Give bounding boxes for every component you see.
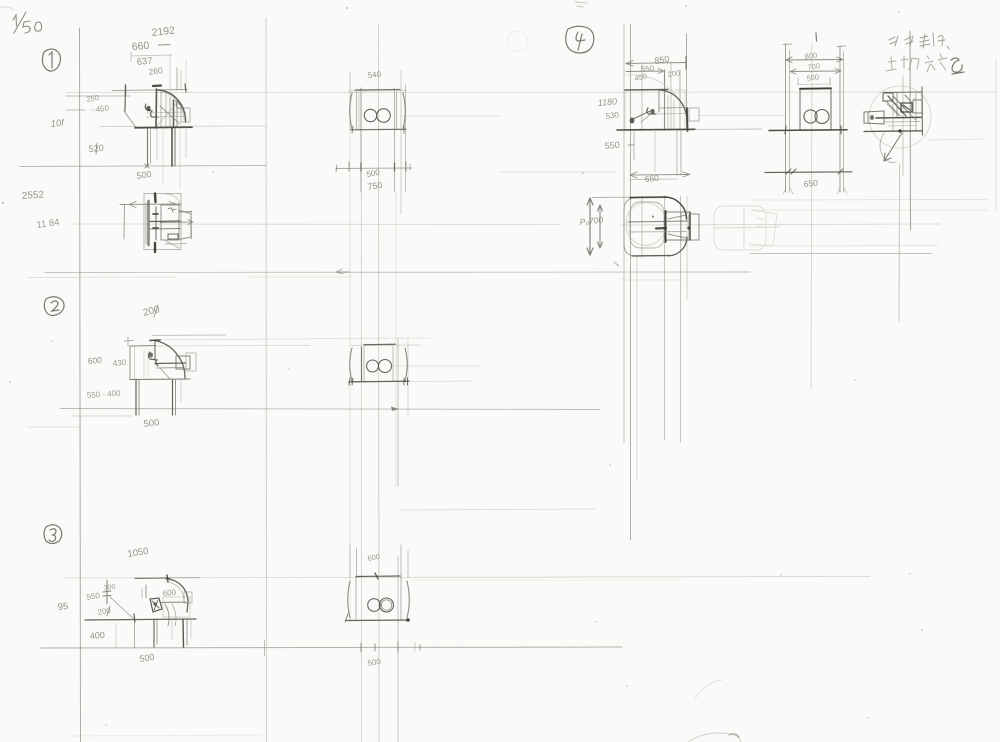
vertical guide x=350 long faint	[349, 130, 351, 622]
T1 main vertical	[155, 89, 158, 128]
T2 small box right	[176, 356, 190, 369]
T1 seat dark blob	[146, 106, 150, 112]
T1 left vertical	[124, 90, 127, 111]
B1 tap circle left	[364, 109, 376, 121]
T1 dim tick left	[125, 85, 127, 95]
T3 inner arc echo	[166, 582, 184, 601]
S4A floor faint extension	[695, 128, 762, 131]
T2 quarter arc	[155, 341, 185, 379]
horizontal y=580 faint right of basin3	[410, 579, 680, 581]
circled number 1	[42, 49, 60, 71]
T3 diagonal guide to floor	[110, 597, 135, 620]
strike in 520	[96, 143, 97, 154]
S4A left vertical of arc	[658, 90, 660, 112]
svg-text:95: 95	[57, 601, 68, 613]
S4B tank dark left edge	[665, 211, 667, 242]
faint arc bottom centre	[694, 680, 722, 700]
T5 long arrow diagonal	[884, 133, 902, 161]
horizontal y=346 toilet2 top guide	[128, 345, 310, 348]
smudge top left edge	[0, 7, 14, 10]
B2 inner vertical right	[392, 347, 394, 381]
S4B top guide line	[592, 196, 656, 199]
T5 bottom dark line	[864, 130, 922, 133]
svg-text:500: 500	[806, 72, 820, 83]
basin B2 section2	[349, 344, 472, 385]
B1 inner verticals left pair	[356, 92, 358, 129]
svg-text:540: 540	[367, 70, 382, 80]
vertical guide x=394.5 upper	[394, 88, 396, 192]
short dark stroke above basin4	[815, 33, 818, 41]
T1 diagonal to floor	[124, 111, 136, 128]
B3 left arc	[348, 581, 350, 618]
toilet T2 section2	[124, 335, 310, 415]
basin B3 section3	[345, 573, 420, 652]
svg-text:800: 800	[804, 51, 817, 61]
B4 dark top edge	[800, 87, 831, 90]
T1b seat horizontals	[150, 220, 180, 223]
T1 arc inner echo	[160, 92, 184, 120]
T3 tick on diagonal	[134, 614, 135, 622]
S4A dark right vertical	[686, 108, 689, 131]
B2 inner vertical pair left	[361, 347, 363, 381]
arrow tick on y=272 line	[336, 269, 349, 274]
B4 lower dim arrow ticks	[786, 169, 796, 174]
T2 legs below	[135, 380, 137, 415]
basin4 rail verticals	[785, 44, 787, 192]
strike in 200 sec3	[107, 606, 110, 616]
svg-text:430: 430	[112, 358, 127, 368]
T3 left small verticals	[145, 585, 147, 598]
T5 top bar	[884, 91, 922, 94]
smudge top edge near x=580	[575, 2, 587, 7]
T1 right box	[181, 108, 190, 122]
B1 top line	[355, 89, 400, 92]
vertical guides above toilet1	[169, 55, 171, 90]
T1 diagonal strokes	[160, 106, 180, 124]
svg-text:10f: 10f	[50, 118, 66, 130]
S4A big faint quarter arc	[627, 75, 688, 128]
B2 bottom end ticks	[349, 378, 408, 385]
S4B mid horizontal dark	[628, 221, 688, 222]
T2 top dark tick	[150, 339, 160, 342]
vertical x=642 mid	[641, 196, 643, 258]
vertical guide x=350 upper	[349, 72, 351, 130]
vertical x=637	[636, 255, 638, 480]
T5 left upper box	[883, 93, 893, 101]
horizontal y=253.5 right	[750, 253, 932, 255]
vertical guide x=398 lower	[397, 556, 399, 742]
B2 bottom faint extension	[409, 380, 472, 383]
T3 top tick	[167, 575, 168, 582]
S4B dark top edge	[630, 196, 666, 199]
T2 left dim ticks	[127, 337, 129, 346]
svg-text:530: 530	[605, 110, 620, 121]
B2 left arc	[350, 348, 352, 381]
S4B tank dark right verticals	[689, 212, 691, 240]
vertical x=116 short section3	[115, 624, 117, 648]
svg-text:500: 500	[143, 417, 160, 430]
B4 dim 700	[790, 69, 841, 75]
svg-text:300: 300	[103, 584, 115, 592]
horizontal y=272 long	[45, 271, 750, 274]
horizontal faint y=92 full width	[66, 91, 997, 94]
svg-text:2552: 2552	[21, 189, 44, 202]
B3 top dark line	[356, 575, 400, 578]
S4B inner bowl oval faint	[626, 203, 666, 246]
T3 flush small rect right	[184, 592, 192, 603]
B3 tap circle right inner	[381, 600, 391, 610]
tick verticals on y=647	[264, 640, 266, 656]
T3 top dark segment	[135, 577, 170, 580]
T2 top faint guide	[152, 334, 226, 337]
strike in 200 sec2	[154, 305, 158, 317]
B4 dim 500 ticks	[797, 78, 799, 85]
horizontal y=510 middle faint	[400, 509, 595, 510]
svg-text:600: 600	[162, 588, 177, 598]
T5 mid dark horizontal	[876, 116, 921, 119]
T1 legs below floor	[147, 128, 149, 165]
japanese annotation row2 top right	[886, 54, 947, 72]
vertical centerline of basin column x=378	[378, 25, 381, 742]
S4A dark top bar	[625, 89, 668, 92]
T2 left rect	[130, 346, 155, 380]
T5 small dark box mid	[901, 103, 912, 112]
T1b inner vertical mid	[155, 207, 157, 240]
horizontal y=224 long faint	[70, 223, 560, 226]
B3 dark dot right	[406, 618, 410, 622]
T1b dark marks at x=155	[153, 214, 158, 228]
T3 legs below	[153, 620, 155, 647]
S4A flush plate right	[689, 108, 699, 121]
S4B tank inner diagonals	[668, 215, 686, 219]
T1 hatch verticals	[160, 92, 162, 127]
S4B flush rect right	[689, 214, 699, 240]
T2 bottom line	[130, 378, 190, 381]
B4 lower dim 650 dark	[765, 171, 852, 174]
horizontal y=246 right faint	[750, 245, 938, 248]
T1 seat hook	[145, 104, 158, 117]
horizontal y=366 right of basin2	[392, 365, 480, 367]
long vertical construction line left margin	[80, 28, 81, 742]
B4 tap circle right	[815, 110, 829, 124]
vertical guide x=398 middle	[397, 338, 399, 486]
B4 counter rect	[800, 89, 831, 131]
B1 dim ticks y=167	[348, 162, 350, 171]
T1b dim line right with arrow	[160, 212, 193, 225]
S4B bottom right arc dark	[668, 237, 687, 256]
B4 bottom tick ends	[785, 126, 786, 134]
vertical x=664	[664, 70, 666, 130]
B2 right arc	[405, 348, 407, 381]
S4B tank rect	[665, 212, 690, 240]
T3 pipes curving down	[165, 604, 169, 626]
B1 dim outer ticks	[336, 165, 337, 172]
horizontal y=427 far left	[27, 426, 80, 428]
vertical guide x=401 upper	[400, 70, 402, 214]
B4 bottom dark line	[769, 129, 847, 132]
S4B inner bowl rounded square	[630, 202, 664, 248]
B3 bottom dark line	[346, 619, 409, 622]
T2 arc start vertical	[154, 340, 156, 360]
horizontal y=200 right faint	[752, 199, 988, 202]
S4A floor dark line	[617, 128, 695, 131]
horizontal y=210 right faint	[752, 209, 988, 211]
S4B outer rounded rect	[624, 198, 664, 211]
T1b tank shading band dark	[147, 201, 150, 245]
T5 diagonal seat bundle	[888, 96, 906, 116]
B1 left arc	[350, 93, 352, 129]
S4A faint box	[625, 90, 685, 130]
vertical right x=910	[909, 31, 912, 230]
B4 dim 800 arrows	[786, 57, 843, 63]
T5 big faint circle	[869, 86, 931, 148]
B3 side verticals	[355, 577, 357, 619]
B2 tap circle left	[367, 360, 379, 372]
T5 left projecting box	[864, 111, 884, 124]
horizontal y=338 faint	[310, 337, 430, 340]
horizontal y=126	[100, 125, 266, 128]
toilet T3 section3	[85, 575, 196, 647]
T2 second faint guide	[150, 338, 310, 341]
T1b trapezoid right	[179, 211, 191, 240]
vertical x=642 upper	[641, 64, 643, 130]
T5 right box	[913, 100, 922, 113]
T1 quarter arc	[158, 90, 186, 122]
dash after 660	[159, 44, 170, 47]
dark curl bottom right corner	[729, 734, 739, 737]
T3 mid horizontal	[160, 601, 186, 604]
S4A dim line 550	[626, 69, 664, 74]
horizontal y=408 long	[60, 409, 600, 410]
verticals above basin3	[349, 545, 351, 578]
japanese annotation row1 top right	[889, 33, 949, 49]
circled number 2	[44, 297, 64, 316]
T1 cross lines mid	[146, 112, 186, 113]
S4A dim 650 below	[630, 172, 690, 178]
long vertical right x=899	[898, 164, 901, 321]
T3 bowl dark shape	[150, 598, 162, 612]
T1 long guides below	[162, 128, 164, 185]
T1 dim tick right	[185, 84, 186, 92]
S4B bottom dark edge	[632, 255, 670, 258]
basin B1 section1	[336, 90, 412, 173]
T2 mid dark horizontal	[155, 362, 186, 365]
T1b bottom pipe dark	[154, 243, 156, 252]
S4A blob mid	[650, 109, 654, 114]
T1b dim line with arrows	[120, 202, 181, 208]
T1b quarter arc top right	[166, 194, 180, 206]
scale note 1/50 top left	[13, 12, 42, 33]
basin B4 section4	[765, 44, 852, 194]
vertical column centre section4 x=630	[630, 24, 632, 540]
T1b left bracket vertical	[123, 205, 126, 239]
S4B dark bar left of tank	[656, 227, 666, 230]
svg-text:600: 600	[87, 355, 102, 366]
T1 dim arrow under	[145, 164, 149, 168]
T5 inner verticals	[892, 92, 894, 131]
toilet T1b section1 plan view	[120, 194, 193, 253]
T5 extra hatch strokes	[896, 93, 898, 117]
vertical x=680	[679, 70, 681, 130]
horizontal y=647 long	[40, 647, 622, 648]
T5 tail curve	[880, 133, 896, 163]
S4A mid horizontals	[660, 107, 686, 110]
toilet T1 section1 front view	[112, 84, 192, 188]
T1 floor dark line	[135, 126, 192, 129]
T5 right dark vertical	[921, 87, 924, 135]
S4A seat hook	[647, 108, 656, 114]
svg-text:650: 650	[644, 173, 659, 184]
svg-text:260: 260	[148, 65, 164, 77]
T3 box right	[163, 597, 190, 617]
svg-text:200: 200	[667, 68, 681, 79]
B4 tap circle left	[804, 110, 817, 123]
dash after 550	[628, 144, 634, 146]
B3 tap circle left	[368, 599, 381, 612]
vertical x=134 section3	[134, 616, 136, 648]
S4B dark dot	[687, 226, 690, 229]
svg-text:650: 650	[803, 178, 818, 189]
horizontal short y=96 left	[66, 95, 130, 97]
horizontal dashes y=110 left	[66, 109, 85, 111]
horizontal y=416 left	[72, 415, 132, 417]
B2 tap circle right	[379, 360, 392, 373]
vertical guide x=396 long faint	[395, 192, 397, 486]
B4 rails bottom flare	[783, 188, 847, 194]
ghost circle left of circled 4	[508, 31, 528, 51]
T1 dim line y=90	[112, 90, 187, 91]
vertical right x=903	[902, 76, 904, 175]
svg-text:500: 500	[136, 169, 152, 181]
T1 right details triangle	[176, 101, 184, 108]
circled number 3	[44, 525, 62, 544]
S4B vertical dim arrows	[587, 198, 593, 255]
T1 dark top bar	[153, 84, 161, 87]
vertical guide x=406 upper	[405, 85, 407, 192]
circled number 4	[566, 26, 594, 53]
T5 faint line right	[928, 139, 985, 140]
B1 bottom ticks	[352, 126, 353, 133]
T1b outer rect	[144, 194, 181, 250]
toilet T5 rightmost with circle	[864, 86, 985, 163]
S4A legs below	[633, 130, 635, 160]
horizontal y=736 bottom faint	[72, 735, 264, 736]
svg-text:550: 550	[604, 140, 620, 151]
S4B speck	[652, 216, 654, 218]
T3 left dim cross ticks	[103, 591, 111, 604]
svg-text:400: 400	[89, 630, 105, 641]
vertical x=686	[686, 34, 688, 130]
B3 bottom left flare	[345, 614, 348, 622]
S4A dim arrow 850	[626, 61, 686, 67]
B1 dim line y=168	[336, 167, 412, 170]
B2 bottom dark line	[349, 380, 409, 383]
dim bracket 660	[131, 52, 172, 62]
B1 right arc	[403, 93, 405, 129]
T3 quarter arc	[166, 579, 188, 612]
B3 ticks on y=647 line	[361, 642, 420, 652]
S4A dim tick line y=179	[630, 178, 678, 181]
faint arc bottom right corner	[688, 733, 741, 742]
T1b right bracket vertical	[190, 211, 193, 239]
T2 seat hook	[149, 352, 159, 366]
B3 top centre tick	[375, 573, 378, 579]
svg-text:450: 450	[95, 103, 110, 114]
vertical x=671	[670, 62, 672, 130]
S4B top right corner arc dark	[664, 197, 687, 219]
section4 toilet S4B plan view	[587, 197, 699, 266]
B2 top dark line	[364, 343, 395, 346]
vertical construction line x=266	[265, 18, 268, 742]
T2 diagonal	[160, 368, 170, 379]
vertical guide x=361 upper	[360, 88, 362, 192]
horizontal y=166 left	[20, 166, 266, 167]
horizontal y=116 segments	[400, 115, 500, 117]
horizontal y=577 long	[65, 577, 870, 579]
japanese annotation dark glyph row2 end	[951, 58, 964, 74]
vertical guide x=408 middle	[407, 338, 409, 415]
S4A quarter arc dark	[659, 90, 687, 121]
T1b bottom diagonal	[166, 241, 179, 248]
vertical column centre section4 x=624	[623, 24, 625, 442]
T1b small box bottom	[168, 234, 178, 239]
arrowhead on y=408 line	[391, 407, 399, 412]
T1b small a-mark top	[168, 208, 176, 212]
T1b bottom shelf lines	[165, 243, 186, 246]
B1 tap circle right	[377, 109, 391, 123]
T3 floor dark line	[85, 619, 196, 620]
section4 toilet S4A front view	[617, 56, 762, 180]
T1b inner rect	[161, 205, 179, 240]
B3 right arc	[407, 581, 409, 618]
S4A diagonal strut	[633, 111, 650, 119]
svg-text:2192: 2192	[151, 25, 176, 39]
B1 bottom line	[351, 128, 406, 131]
B3 tap circle right outer	[380, 598, 394, 612]
T1b top pipe dark	[154, 194, 157, 203]
vertical guide x=361 long faint	[360, 192, 362, 742]
T5 dark dot	[898, 129, 902, 133]
B1 inner vertical right	[396, 92, 398, 129]
faint scanner edge right	[995, 60, 997, 210]
S4B small mark below	[614, 262, 619, 266]
svg-text:660: 660	[131, 40, 149, 53]
basin4 centre vertical x=812	[811, 44, 812, 389]
ghost toilet plan right of S4B	[714, 206, 780, 250]
horizontal y=277 segments	[27, 276, 175, 279]
S4A seat blob left	[630, 118, 635, 124]
T2 inner hatch verticals	[143, 350, 145, 378]
horizontal y=172 segments	[500, 171, 615, 173]
T3 left dim vertical	[106, 580, 108, 592]
B4 rail caps	[783, 43, 792, 46]
svg-text:1180: 1180	[597, 96, 617, 108]
S4A hatch verticals inside	[667, 96, 669, 129]
